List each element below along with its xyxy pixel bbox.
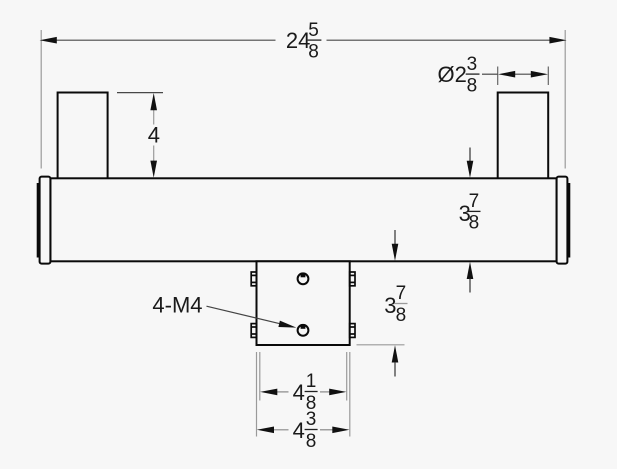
dimension 4 3/8 left arrow [257, 427, 274, 434]
side bolt upper-left [251, 272, 256, 286]
dimension 24 5/8 left arrow [40, 37, 57, 44]
right end cap [557, 177, 568, 264]
main cross-arm bar [50, 178, 556, 261]
dimension text 24 5/8 [286, 20, 322, 63]
svg-text:8: 8 [308, 42, 319, 63]
dimension Ø2 3/8 left arrow [498, 71, 515, 78]
dimension Ø2 3/8 line [482, 73, 533, 75]
dimension 3 7/8 (bar) top arrow tail [469, 148, 471, 163]
svg-text:3: 3 [384, 293, 396, 318]
svg-text:8: 8 [306, 431, 317, 452]
dimension Ø2 3/8 extension tick right [547, 67, 549, 86]
dimension 4 3/8 extension line left [256, 352, 258, 437]
svg-text:4: 4 [148, 123, 160, 148]
dimension 4 1/8 left arrow [260, 389, 277, 396]
dimension text 4 1/8 [293, 371, 318, 414]
side bolt lower-right [350, 324, 355, 338]
svg-text:24: 24 [286, 28, 310, 53]
right tenon post [498, 93, 549, 179]
dimension 3 7/8 (bar) top arrow [467, 161, 474, 178]
svg-text:5: 5 [308, 20, 319, 41]
dimension 3 7/8 (bar) bottom arrow tail [469, 279, 471, 293]
dimension 3 7/8 (plate) top arrow [392, 244, 399, 261]
left end cap [40, 177, 51, 264]
side bolt upper-right [350, 272, 355, 286]
dimension 24 5/8 line [55, 39, 551, 41]
dimension text 3 7/8 (plate) [384, 283, 407, 326]
dimension 3 7/8 (plate) bottom arrow [392, 345, 399, 362]
svg-text:Ø2: Ø2 [438, 62, 467, 87]
plate hole lower (M4) [298, 324, 309, 335]
dimension 3 7/8 (plate) bottom arrow tail [394, 362, 396, 377]
dimension 24 5/8 right arrow [549, 37, 566, 44]
label 4-M4 leader line [207, 306, 285, 325]
dimension 24 5/8 extension line right [564, 30, 566, 169]
dimension 3 7/8 (plate) top arrow tail [394, 230, 396, 245]
dimension 4 3/8 right arrow [332, 427, 349, 434]
dimension 4 1/8 right arrow [329, 389, 346, 396]
dimension 24 5/8 extension line left [40, 30, 42, 169]
dimension Ø2 3/8 right arrow [531, 71, 548, 78]
svg-text:4-M4: 4-M4 [152, 293, 202, 318]
dimension text Ø2 3/8 [438, 54, 480, 97]
svg-text:4: 4 [293, 380, 305, 405]
dimension 4 3/8 extension line right [349, 352, 351, 437]
dimension 4 3/8 line [272, 429, 335, 431]
side bolt lower-left [251, 324, 256, 338]
dimension text 4 3/8 [293, 409, 318, 452]
left end cap edge [37, 183, 40, 258]
right end cap edge [568, 183, 571, 258]
svg-text:3: 3 [467, 54, 478, 75]
dimension 4 bottom arrow [150, 161, 157, 178]
dimension 4 1/8 extension line right [346, 352, 348, 401]
svg-text:7: 7 [396, 283, 407, 304]
svg-text:7: 7 [469, 191, 480, 212]
svg-text:8: 8 [396, 305, 407, 326]
dimension Ø2 3/8 extension tick left [497, 67, 499, 86]
left tenon post [58, 93, 108, 179]
dimension 3 7/8 (plate) extension line [357, 344, 405, 346]
dimension 4 1/8 extension line left [259, 352, 261, 401]
dimension text 3 7/8 (bar) [459, 191, 481, 234]
svg-text:1: 1 [306, 371, 317, 392]
svg-text:3: 3 [306, 409, 317, 430]
svg-text:4: 4 [293, 418, 305, 443]
dimension 4 extension line [117, 92, 163, 94]
svg-text:8: 8 [467, 76, 478, 97]
label 4-M4 leader arrow [278, 321, 296, 328]
dimension 4 1/8 line [275, 391, 332, 393]
dimension 3 7/8 (bar) bottom arrow [467, 262, 474, 279]
dimension 4 top arrow [150, 93, 157, 110]
svg-text:8: 8 [469, 213, 480, 234]
plate hole upper (M4) [298, 273, 309, 284]
dimension 4 line [153, 109, 155, 162]
mounting plate [257, 261, 350, 345]
